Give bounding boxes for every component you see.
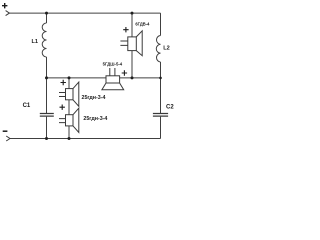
input plus terminal [2, 3, 7, 8]
svg-text:25гдн-3-4: 25гдн-3-4 [82, 95, 106, 101]
svg-text:L1: L1 [32, 39, 39, 45]
input minus terminal arrow [6, 136, 10, 141]
wire middle horizontal left [47, 77, 107, 79]
speaker B3 25GDN cone [73, 82, 79, 106]
speaker B4 25GDN body [66, 115, 74, 126]
wire right vertical L2 top [160, 13, 162, 35]
wire L2 to middle [160, 62, 162, 78]
inductor L1 [42, 23, 46, 57]
junction node middle left [45, 76, 48, 79]
wire L1 to middle junction [46, 57, 48, 78]
capacitor C2 [153, 114, 168, 117]
speaker B4 leads [59, 119, 66, 123]
wire left rail C1 branch [46, 78, 48, 113]
wire midrange rail bottom [68, 126, 70, 139]
speaker B4 25GDN cone [73, 108, 79, 132]
inductor L2 [156, 36, 160, 63]
wire C2 to bottom [160, 117, 162, 139]
wire midrange rail middle [68, 100, 70, 115]
wire midrange rail top [68, 78, 70, 89]
junction node top tweeter [131, 12, 134, 15]
svg-text:25гдн-3-4: 25гдн-3-4 [83, 116, 107, 122]
speaker B2 leads [110, 68, 115, 76]
svg-text:L2: L2 [163, 46, 170, 52]
wire left rail top [46, 13, 48, 23]
wire C1 to bottom [46, 117, 48, 139]
speaker B4 plus sign [60, 105, 65, 110]
input plus terminal arrow [6, 11, 10, 16]
speaker B1 tweeter 6GDV-4 cone [136, 31, 142, 56]
speaker B1 leads [120, 41, 127, 45]
speaker B3 plus sign [61, 80, 66, 85]
input minus terminal [3, 130, 8, 132]
speaker B2 plus sign [122, 70, 127, 75]
junction node middle tweeter [131, 76, 134, 79]
capacitor C1 [40, 114, 54, 117]
wire top horizontal [9, 12, 160, 14]
wire tweeter branch top [131, 13, 133, 37]
wire C2 branch vertical [160, 78, 162, 113]
svg-text:C2: C2 [166, 105, 174, 111]
svg-text:C1: C1 [23, 103, 31, 109]
svg-text:6ГДВ-4: 6ГДВ-4 [135, 22, 149, 28]
junction node bottom left [45, 137, 48, 140]
speaker B3 25GDN body [66, 89, 74, 100]
wire middle horizontal right [120, 77, 161, 79]
speaker B1 plus sign [123, 27, 128, 32]
junction node middle right [159, 77, 162, 80]
wire bottom horizontal [10, 138, 161, 140]
speaker B1 tweeter 6GDV-4 body [128, 37, 137, 51]
svg-text:5ГДШ-5-4: 5ГДШ-5-4 [103, 61, 123, 66]
junction node top left [45, 12, 48, 15]
junction node middle midrange [68, 76, 71, 79]
speaker B2 5GDSh body [106, 76, 120, 83]
speaker B3 leads [59, 93, 66, 97]
speaker B2 5GDSh cone [102, 83, 124, 90]
wire tweeter branch bottom [131, 51, 133, 78]
junction node bottom midrange [68, 137, 71, 140]
